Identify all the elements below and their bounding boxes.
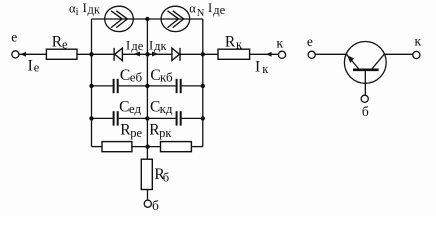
label Ced <box>119 99 141 116</box>
svg-text:к: к <box>262 62 269 76</box>
terminal b (transistor) <box>361 95 368 102</box>
diode De (left, pointing left) <box>114 48 122 61</box>
label Ie <box>28 58 40 75</box>
label Rpe <box>120 122 142 141</box>
transistor base lead <box>364 71 366 96</box>
svg-text:N: N <box>197 8 205 19</box>
svg-text:е: е <box>62 38 68 52</box>
terminal e (transistor) <box>308 51 315 58</box>
svg-text:к: к <box>415 33 422 48</box>
label Re <box>52 34 68 52</box>
svg-text:C: C <box>120 67 130 84</box>
label Ckd <box>150 99 173 116</box>
junction node resistor row middle <box>145 144 149 148</box>
label Ckb <box>150 67 173 84</box>
arrow Ide current <box>134 52 140 57</box>
svg-text:дк: дк <box>154 39 167 53</box>
junction node cap row2 right <box>201 116 205 120</box>
svg-text:б: б <box>362 104 369 119</box>
svg-text:I: I <box>28 58 33 75</box>
label alpha_N Ide <box>189 1 225 19</box>
wire emitter lead <box>19 53 46 55</box>
svg-text:дк: дк <box>88 3 101 17</box>
svg-text:ре: ре <box>130 126 142 140</box>
svg-text:де: де <box>213 3 225 17</box>
wire diode row <box>77 53 114 55</box>
svg-text:R: R <box>225 34 236 51</box>
junction node diode row middle <box>145 52 149 56</box>
arrow Idk current <box>152 52 158 57</box>
junction node cap row1 middle <box>145 84 149 88</box>
resistor Rpe <box>102 142 132 152</box>
svg-text:кб: кб <box>160 70 173 85</box>
junction node top middle <box>145 17 149 21</box>
svg-text:I: I <box>126 39 130 53</box>
diode Dk (right, pointing right) <box>172 48 180 61</box>
label Idk <box>149 39 167 54</box>
transistor emitter line <box>346 54 359 69</box>
resistor Rb <box>141 159 152 189</box>
label Rb <box>154 166 169 184</box>
capacitor Ceb <box>113 79 119 93</box>
label Ceb <box>120 67 143 84</box>
terminal e (model) <box>12 51 19 58</box>
svg-text:е: е <box>34 61 40 75</box>
wire resistor row <box>92 146 103 148</box>
wire resistor row mid <box>132 146 161 148</box>
junction node diode row right <box>201 52 205 56</box>
wire resistor row right <box>191 146 202 148</box>
junction node cap row2 middle <box>145 116 149 120</box>
resistor Re <box>46 49 77 59</box>
label Ide <box>126 39 144 54</box>
wire left rail <box>91 19 93 147</box>
wire cap row 2 left <box>92 117 113 119</box>
junction node cap row1 right <box>201 84 205 88</box>
junction node cap row2 left <box>89 116 93 120</box>
svg-text:I: I <box>208 1 212 15</box>
transistor base bar <box>353 69 379 72</box>
transistor collector line <box>372 54 385 69</box>
svg-text:α: α <box>189 2 196 16</box>
terminal k (model) <box>278 51 285 58</box>
svg-text:б: б <box>152 198 159 213</box>
svg-text:де: де <box>131 39 143 53</box>
capacitor Ckd <box>176 111 182 125</box>
wire cap row 1 middle <box>119 85 176 87</box>
wire middle rail upper <box>146 19 148 159</box>
junction node diode row left <box>89 52 93 56</box>
wire middle rail lower <box>147 190 149 201</box>
terminal b (model) <box>144 200 151 207</box>
wire collector lead <box>250 53 279 55</box>
svg-text:i: i <box>76 7 79 18</box>
capacitor Ckb <box>176 79 182 93</box>
wire transistor collector lead <box>384 53 413 55</box>
svg-text:к: к <box>236 38 243 52</box>
wire diode middle <box>122 53 171 55</box>
arrow Ik current <box>266 52 272 57</box>
current source a_i Idk <box>105 6 134 31</box>
label alpha_i Idk <box>69 1 101 18</box>
svg-text:рк: рк <box>159 126 172 140</box>
svg-text:еб: еб <box>130 70 143 85</box>
label Rpk <box>149 122 172 141</box>
svg-text:I: I <box>255 59 260 76</box>
resistor Rpk <box>161 142 192 152</box>
arrow Ie current <box>20 52 26 57</box>
resistor Rk <box>218 49 250 59</box>
svg-text:C: C <box>119 99 129 116</box>
wire cap row 2 right <box>182 117 203 119</box>
label Rk <box>225 34 243 52</box>
junction node cap row1 left <box>89 84 93 88</box>
svg-text:б: б <box>163 171 169 185</box>
svg-text:к: к <box>276 36 283 51</box>
terminal k (transistor) <box>413 51 420 58</box>
wire cap row 1 left <box>92 85 113 87</box>
wire cap row 2 middle <box>119 117 176 119</box>
svg-text:I: I <box>149 39 153 53</box>
svg-text:I: I <box>83 1 87 15</box>
transistor Q circle <box>344 42 386 84</box>
svg-text:кд: кд <box>160 101 173 116</box>
svg-text:е: е <box>307 34 313 49</box>
svg-text:е: е <box>11 30 17 45</box>
transistor emitter arrow <box>347 55 354 63</box>
label Ik <box>255 59 269 76</box>
wire top loop <box>92 18 203 20</box>
wire cap row 1 right <box>182 85 203 87</box>
wire diode right <box>180 53 218 55</box>
svg-text:ед: ед <box>129 101 142 116</box>
wire right rail <box>202 19 204 147</box>
capacitor Ced <box>113 111 119 125</box>
current source a_N Ide <box>161 6 190 31</box>
wire transistor emitter lead <box>315 53 347 55</box>
